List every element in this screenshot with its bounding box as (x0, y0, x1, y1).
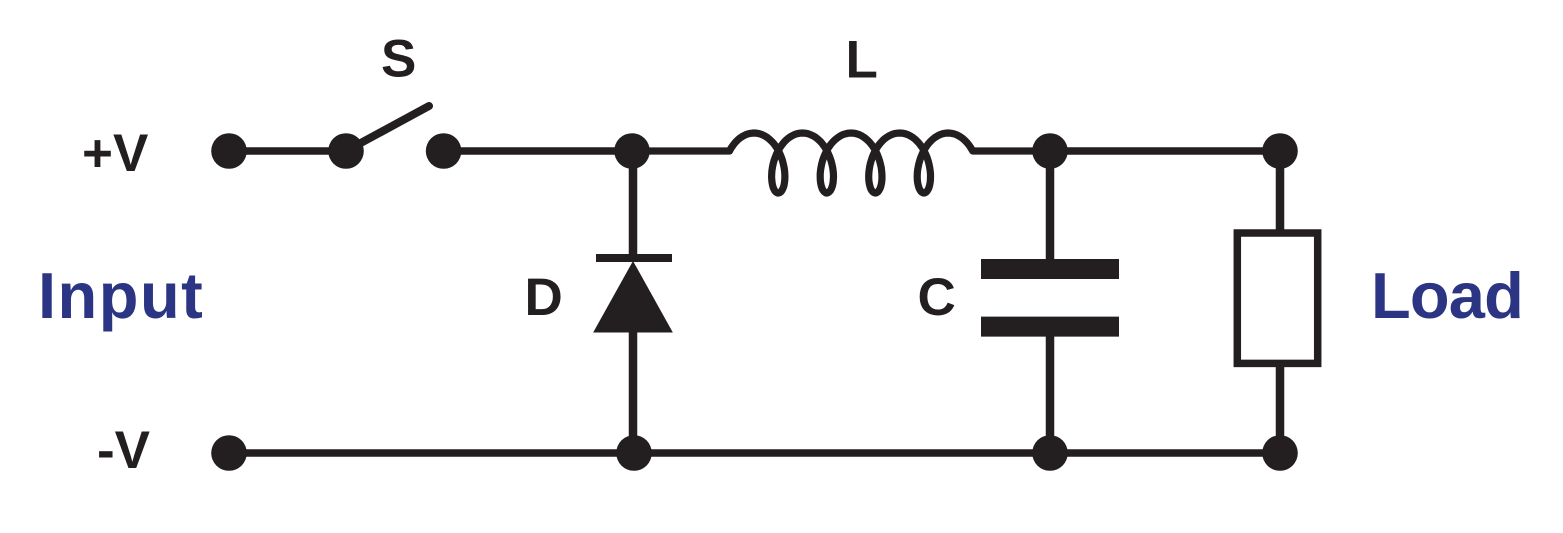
wire load lower lead (1276, 363, 1285, 453)
node dot switch pivot (328, 133, 364, 169)
node dot bottom rail left (211, 435, 247, 471)
wire top rail from capacitor node to load corner (1050, 147, 1280, 155)
wire top rail from switch to diode node (444, 147, 632, 155)
load resistor box (1237, 233, 1317, 363)
svg-text:+V: +V (82, 124, 148, 183)
node dot capacitor bottom junction (1032, 435, 1068, 471)
node dot top rail 1 (211, 133, 247, 169)
diode D cathode bar (596, 254, 672, 262)
capacitor C top plate (981, 259, 1119, 279)
node dot load top corner (1262, 133, 1298, 169)
inductor L coil (632, 133, 1050, 193)
svg-text:D: D (525, 268, 563, 327)
node dot diode top junction (614, 133, 650, 169)
wire load upper lead (1276, 151, 1285, 233)
svg-text:Load: Load (1371, 259, 1523, 332)
wire diode lower lead (629, 330, 638, 453)
svg-text:S: S (381, 30, 416, 89)
wire diode upper lead (629, 151, 638, 258)
svg-text:C: C (918, 268, 956, 327)
wire capacitor upper lead (1046, 151, 1055, 262)
svg-text:-V: -V (97, 421, 150, 480)
wire top rail left segment (229, 147, 346, 155)
node dot capacitor top junction (1032, 133, 1068, 169)
node dot load bottom corner (1262, 435, 1298, 471)
svg-text:Input: Input (38, 259, 204, 332)
diode D triangle (594, 262, 672, 332)
node dot diode bottom junction (616, 435, 652, 471)
switch S arm (346, 106, 429, 151)
node dot switch right (426, 133, 462, 169)
wire bottom rail (229, 449, 1280, 457)
wire capacitor lower lead (1046, 334, 1055, 453)
capacitor C bottom plate (981, 317, 1119, 337)
svg-text:L: L (846, 31, 878, 90)
